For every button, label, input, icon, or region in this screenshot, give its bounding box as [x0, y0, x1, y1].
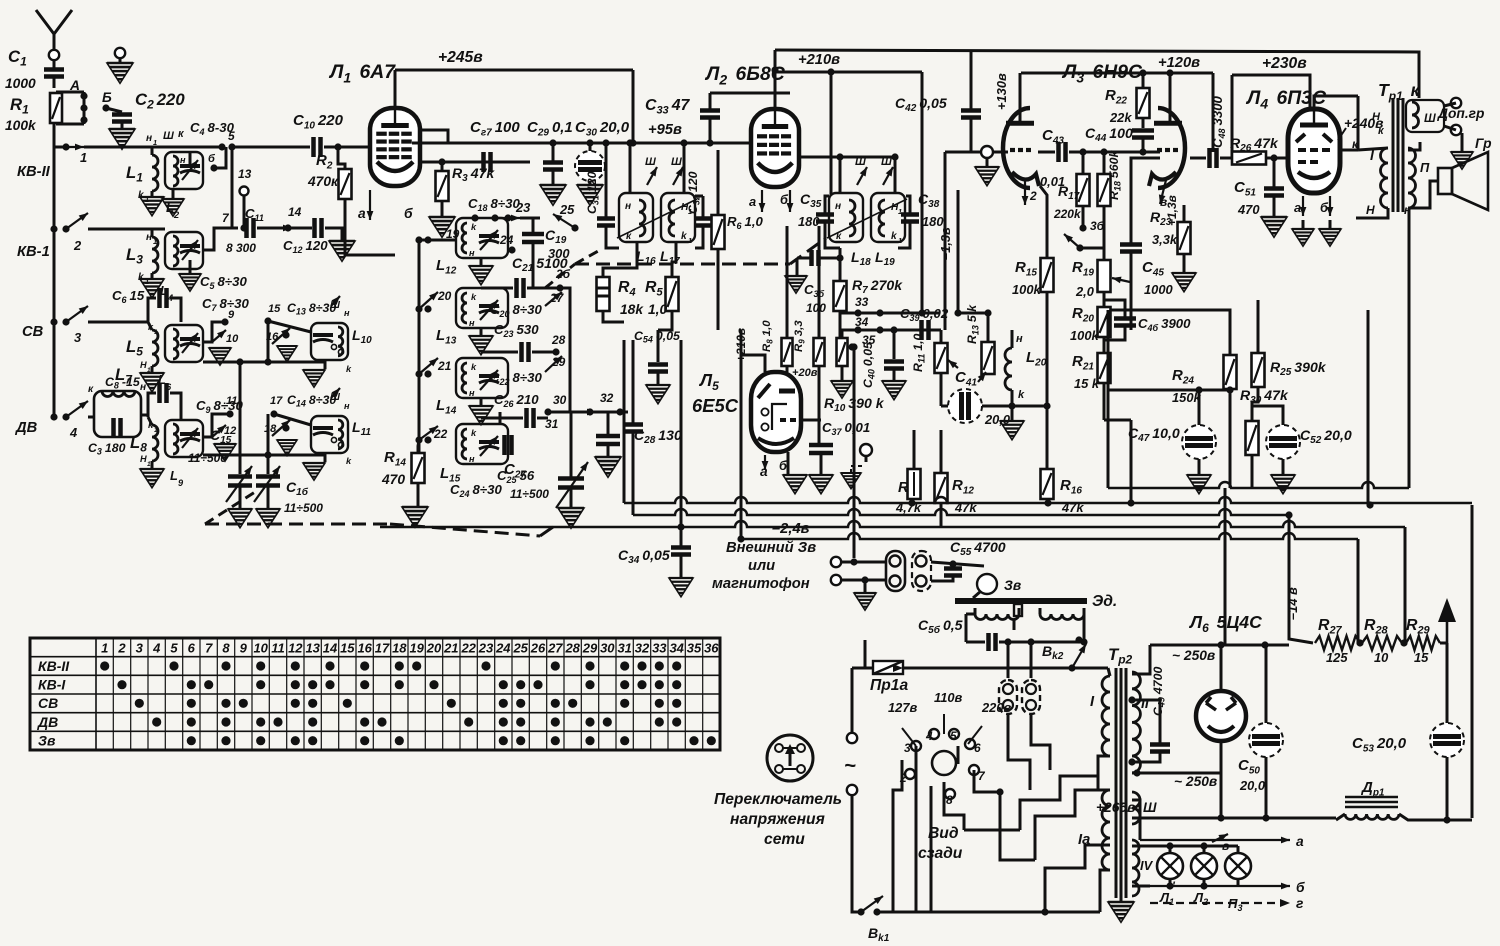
wire L2 top — [710, 92, 790, 95]
svg-text:R93,3: R93,3 — [793, 320, 807, 352]
junction — [1262, 814, 1269, 821]
selector pin 6 — [965, 739, 975, 749]
label 127v — [888, 700, 917, 715]
svg-text:14: 14 — [323, 641, 338, 656]
junction — [890, 326, 897, 333]
label C51 value — [1237, 202, 1260, 217]
wire — [1130, 252, 1133, 330]
svg-text:12: 12 — [288, 641, 303, 656]
wire — [852, 796, 861, 912]
label 35 — [862, 333, 876, 347]
label — [346, 364, 352, 374]
label a — [749, 194, 756, 209]
speaker — [1438, 152, 1488, 210]
capacitor C48 — [1210, 148, 1217, 168]
wire to L2 — [710, 142, 752, 145]
wire — [148, 417, 152, 425]
gang arrow C16 — [254, 466, 280, 502]
junction — [1166, 69, 1173, 76]
tube label L5 — [698, 370, 719, 393]
wire 26 down — [560, 288, 570, 412]
wire — [607, 412, 610, 434]
resistor R1 — [50, 93, 62, 123]
wire +210 down — [740, 355, 743, 539]
label — [344, 308, 350, 318]
svg-text:C32120: C32120 — [686, 171, 702, 214]
bus wire A — [624, 497, 1472, 503]
wire — [999, 641, 1084, 644]
wire — [589, 143, 592, 151]
svg-text:35: 35 — [687, 641, 702, 656]
wire — [931, 576, 953, 581]
svg-text:15: 15 — [340, 641, 355, 656]
wire — [570, 488, 573, 507]
wire — [839, 248, 842, 281]
label C15 value — [188, 451, 227, 465]
ground — [540, 185, 566, 205]
svg-text:Л6 5Ц4С: Л6 5Ц4С — [1188, 612, 1262, 635]
electrolytic C30 — [575, 151, 605, 181]
junction — [616, 408, 623, 415]
capacitor C32 — [694, 219, 712, 226]
label b — [779, 458, 788, 473]
junction — [848, 343, 855, 350]
label III — [1424, 111, 1436, 125]
junction — [1166, 842, 1173, 849]
label C16 value — [284, 501, 323, 515]
transformer Tr1 core — [1393, 98, 1403, 212]
wire — [1357, 96, 1360, 150]
inductor L11 — [338, 420, 343, 449]
label C12 — [283, 238, 328, 255]
svg-text:+230в: +230в — [1262, 55, 1307, 72]
svg-text:18: 18 — [392, 641, 407, 656]
wire — [786, 226, 789, 338]
ground — [469, 406, 493, 425]
svg-text:СВ: СВ — [22, 324, 44, 340]
wire — [818, 366, 821, 443]
label R1 value — [5, 118, 37, 133]
label R24 value — [1172, 390, 1201, 405]
svg-text:11÷500: 11÷500 — [510, 487, 549, 501]
wire — [54, 146, 66, 149]
wire — [603, 242, 637, 277]
wire — [53, 77, 56, 88]
capacitor C39 — [922, 320, 929, 340]
label — [153, 138, 157, 147]
svg-text:21: 21 — [437, 359, 451, 373]
plug connector — [999, 680, 1017, 714]
svg-text:~ 250в: ~ 250в — [1172, 648, 1215, 663]
wire riser 15 — [267, 321, 270, 362]
wire — [552, 170, 555, 184]
switch contact 2 — [66, 213, 88, 229]
wire — [1273, 196, 1276, 216]
wire — [965, 614, 968, 642]
wire — [481, 287, 513, 290]
wire — [1302, 220, 1305, 228]
label ~ — [844, 755, 856, 777]
coil box L9 — [165, 420, 203, 457]
label C42 — [895, 95, 947, 114]
junction — [62, 318, 69, 325]
tube L6 kenotron — [1196, 691, 1246, 741]
wire box inner — [1367, 310, 1370, 505]
junction — [491, 214, 498, 221]
wire — [441, 201, 444, 216]
IF transformer L18 L19 box1 — [829, 193, 863, 242]
svg-text:14: 14 — [288, 205, 302, 219]
trimmer arrow — [182, 428, 198, 448]
variable capacitor C27 — [558, 479, 584, 488]
svg-text:напряжения: напряжения — [730, 811, 825, 828]
label — [146, 232, 152, 243]
coil box L6 — [165, 325, 203, 362]
svg-text:н: н — [469, 318, 475, 328]
svg-text:1: 1 — [101, 641, 108, 656]
switch table text — [37, 641, 719, 749]
label C27 — [504, 461, 526, 480]
junction — [264, 317, 271, 324]
label L2 — [166, 200, 174, 215]
wire — [1103, 292, 1106, 307]
resistor R4 — [597, 277, 610, 311]
fuse Pr1a — [873, 661, 903, 674]
svg-text:20: 20 — [426, 641, 442, 656]
label C28 — [634, 427, 682, 446]
junction — [1270, 154, 1277, 161]
svg-text:32: 32 — [600, 391, 614, 405]
wire — [825, 196, 829, 214]
label R16 — [1060, 477, 1082, 496]
svg-text:25: 25 — [512, 641, 528, 656]
wire down to R11 — [944, 152, 947, 330]
wire — [1011, 390, 1014, 420]
label C13 — [287, 301, 336, 317]
svg-text:k: k — [346, 364, 352, 374]
junction — [854, 309, 861, 316]
wire — [324, 360, 327, 369]
tube label L1 6A7 — [328, 61, 396, 85]
wire drop to R28 R29 — [1404, 527, 1407, 643]
wire — [1018, 608, 1021, 614]
label k — [471, 362, 477, 372]
wire — [480, 328, 483, 336]
parallel box L7 C3 — [94, 391, 141, 437]
svg-text:C138÷30: C138÷30 — [287, 301, 336, 317]
svg-text:+95в: +95в — [648, 122, 682, 138]
ground — [854, 593, 876, 610]
label R12 — [952, 477, 974, 496]
label — [167, 293, 173, 303]
junction — [1261, 641, 1268, 648]
label 24 — [499, 233, 514, 247]
wire plate riser — [774, 50, 777, 109]
svg-text:30: 30 — [553, 393, 567, 407]
wire 35 down — [853, 347, 856, 558]
label — [145, 195, 149, 204]
svg-text:6: 6 — [974, 741, 981, 755]
wire band SV — [88, 321, 148, 324]
cathode arrow — [1022, 180, 1029, 205]
junction — [1400, 639, 1407, 646]
label C30 — [575, 119, 630, 138]
ground — [841, 473, 861, 489]
label C36 value — [806, 301, 826, 315]
svg-text:н: н — [344, 401, 350, 411]
junction — [424, 305, 431, 312]
resistor R2 — [339, 169, 352, 199]
ground — [140, 279, 164, 298]
label n — [469, 318, 475, 328]
label C45 — [1142, 259, 1164, 278]
capacitor C37 — [809, 445, 833, 453]
selector switch symbol — [767, 735, 813, 781]
junction — [1008, 402, 1015, 409]
svg-text:C390,02: C390,02 — [900, 306, 949, 323]
resistor R11 — [935, 343, 948, 373]
resistor R3 — [436, 171, 449, 201]
wire — [606, 226, 619, 248]
wire top frame — [775, 50, 1419, 98]
capacitor C3 — [114, 418, 121, 438]
trimmer C7 — [180, 339, 200, 346]
junction — [857, 908, 864, 915]
wire — [1336, 814, 1345, 820]
junction — [1076, 244, 1083, 251]
svg-text:б: б — [1296, 880, 1305, 895]
svg-text:н: н — [835, 201, 841, 212]
capacitor C31 — [597, 219, 615, 226]
resistor R stripe — [913, 472, 915, 496]
wire — [552, 143, 555, 162]
wire — [441, 162, 444, 171]
label R19 value — [1075, 284, 1095, 299]
wire — [1252, 387, 1258, 421]
wire band DV — [88, 416, 94, 419]
resistor R — [908, 469, 921, 499]
junction — [1200, 842, 1207, 849]
capacitor C36 — [812, 250, 819, 266]
label 18 — [264, 423, 277, 435]
bus wire C — [380, 521, 1405, 527]
wire — [324, 146, 370, 149]
switch wiper — [1064, 234, 1080, 248]
wire — [842, 561, 886, 564]
ground — [303, 370, 325, 387]
wire — [796, 258, 799, 275]
wire plate supply — [394, 70, 397, 108]
wire — [1069, 151, 1160, 154]
switch wiper 25 — [553, 214, 575, 228]
arrow v — [1212, 834, 1228, 842]
wire — [1198, 390, 1201, 425]
junction — [1044, 499, 1051, 506]
label vneshniy zv — [726, 540, 816, 556]
wire — [418, 440, 419, 453]
ground — [1187, 475, 1211, 494]
wire — [1198, 459, 1201, 474]
wire switch bus — [418, 240, 421, 460]
svg-text:г: г — [1296, 896, 1303, 911]
wire — [1220, 157, 1234, 160]
junction — [226, 410, 233, 417]
svg-text:Доп.гр: Доп.гр — [1437, 106, 1484, 121]
wire — [121, 122, 124, 128]
svg-text:100k: 100k — [1012, 282, 1041, 297]
ground — [1172, 273, 1196, 292]
wire — [657, 372, 660, 384]
label R15 value — [1012, 282, 1041, 297]
ground — [809, 475, 833, 494]
svg-text:3: 3 — [904, 741, 911, 755]
wire — [1203, 879, 1206, 886]
label 30 — [553, 393, 567, 407]
ground — [429, 217, 455, 237]
wire — [702, 196, 705, 218]
wire — [1131, 158, 1160, 244]
coil box L2 — [165, 152, 203, 189]
label C4 — [190, 120, 235, 137]
label 23 — [515, 200, 531, 215]
junction — [1217, 814, 1224, 821]
svg-text:32: 32 — [635, 641, 650, 656]
svg-text:C10220: C10220 — [293, 112, 344, 131]
svg-text:6Е5С: 6Е5С — [692, 395, 739, 416]
label L1p — [1159, 890, 1174, 907]
wire — [987, 313, 990, 342]
trimmer C13 — [313, 335, 333, 342]
junction — [908, 499, 915, 506]
switch table grid — [30, 638, 720, 750]
wire target anode — [801, 419, 821, 422]
IF transformer L16 L17 box2 — [661, 193, 695, 242]
gang dashed line — [390, 524, 540, 536]
slug mark — [671, 156, 682, 168]
label — [140, 454, 147, 464]
resistor R26 — [1232, 152, 1266, 165]
tube L4 beam plates — [1296, 134, 1332, 142]
switch wiper — [272, 420, 290, 436]
wire — [1111, 310, 1230, 355]
junction — [1443, 816, 1450, 823]
wire — [1190, 157, 1206, 160]
switch wiper 29 — [545, 356, 562, 372]
platform Ed — [955, 598, 1087, 604]
label Tr1 — [1378, 80, 1421, 103]
svg-text:Ш: Ш — [645, 156, 656, 168]
svg-text:15: 15 — [268, 303, 281, 315]
terminal dop gr — [1451, 125, 1461, 135]
electrolytic C52 — [1266, 425, 1300, 459]
wire C35 feed — [830, 72, 833, 195]
svg-text:н: н — [146, 133, 152, 144]
label 2 — [899, 771, 907, 785]
ground — [469, 266, 493, 285]
gang link — [540, 527, 553, 536]
svg-text:C370,01: C370,01 — [822, 420, 870, 437]
wire — [894, 158, 897, 193]
svg-text:–1,3в: –1,3в — [938, 227, 953, 260]
wire — [1183, 254, 1186, 272]
svg-text:10: 10 — [253, 641, 268, 656]
label C32 — [686, 171, 702, 214]
wire lamp top — [1150, 845, 1238, 848]
wire — [657, 330, 660, 362]
winding III box — [1406, 100, 1444, 132]
junction — [221, 318, 228, 325]
label C21 — [512, 255, 568, 274]
ground — [1292, 229, 1314, 246]
svg-text:L: L — [170, 468, 178, 483]
label C35 value — [798, 214, 820, 229]
wire — [915, 746, 918, 912]
label +245v — [438, 49, 483, 66]
label Dop.gr — [1437, 106, 1484, 121]
label — [153, 237, 157, 246]
wire row SV out — [203, 361, 325, 364]
junction — [836, 254, 843, 261]
svg-text:470к: 470к — [307, 174, 339, 189]
trimmer C4 — [180, 166, 200, 173]
resistor R10 — [837, 338, 848, 366]
wire — [1132, 800, 1140, 840]
svg-text:–14 в: –14 в — [1285, 587, 1300, 620]
junction — [677, 523, 684, 530]
junction — [270, 410, 277, 417]
resistor R15 — [1041, 258, 1054, 292]
wire — [1446, 643, 1449, 723]
label — [224, 425, 237, 437]
svg-text:15 k: 15 k — [1074, 376, 1100, 391]
coil taps — [331, 344, 343, 354]
capacitor C34 — [671, 548, 691, 555]
inductor L2 — [173, 156, 178, 186]
wire — [56, 91, 84, 94]
winding II — [1408, 148, 1416, 208]
svg-text:31: 31 — [617, 641, 631, 656]
capacitor C6 — [160, 288, 167, 308]
label SV — [22, 324, 44, 340]
wire — [480, 398, 483, 406]
svg-text:Н: Н — [1372, 111, 1381, 123]
trimmer C5 — [180, 246, 200, 253]
label 10 — [226, 333, 239, 345]
wire C16 riser — [267, 455, 270, 474]
wire — [1020, 776, 1098, 830]
label C19 value — [548, 246, 570, 261]
wire — [1103, 337, 1106, 353]
coil box L15 coil — [462, 429, 467, 459]
terminal grid — [981, 146, 993, 158]
wire — [239, 486, 242, 508]
svg-text:Ш: Ш — [1424, 111, 1436, 125]
ground — [1271, 475, 1295, 494]
svg-text:8: 8 — [946, 793, 953, 807]
label — [688, 207, 692, 216]
winding I primary — [1381, 148, 1388, 208]
label R18 — [1107, 150, 1123, 200]
svg-text:сети: сети — [764, 831, 805, 848]
label 220v — [981, 700, 1011, 715]
label R16 value — [1061, 500, 1084, 515]
label KV-I — [17, 244, 50, 260]
svg-text:ДВ: ДВ — [14, 420, 38, 436]
label 29 — [551, 355, 566, 369]
svg-text:C2220: C2220 — [135, 90, 185, 112]
wire top anode — [1132, 645, 1150, 674]
junction B — [102, 104, 109, 111]
